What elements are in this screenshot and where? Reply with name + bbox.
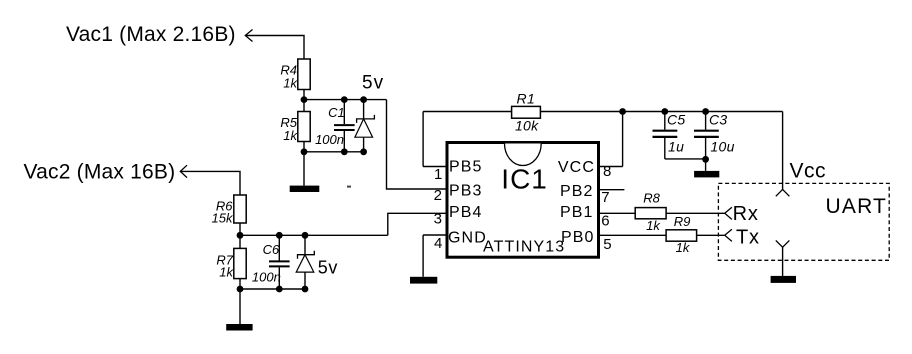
wire Vcc rail down	[782, 112, 784, 190]
wire node row C	[240, 234, 388, 236]
svg-text:1k: 1k	[283, 128, 298, 143]
wire R1 right to node E	[540, 111, 622, 113]
svg-text:100n: 100n	[252, 270, 281, 285]
wire node B to ground	[303, 152, 305, 186]
wire node row D	[240, 288, 305, 290]
wire top rail to Vcc corner	[623, 111, 783, 113]
svg-text:5v: 5v	[318, 258, 338, 278]
resistor R8	[635, 208, 666, 219]
op IC1 body	[447, 143, 599, 258]
arrow UART ground connector	[776, 240, 790, 247]
svg-text:5v: 5v	[362, 73, 384, 94]
svg-text:C6: C6	[263, 242, 280, 257]
wire node row A	[304, 99, 387, 101]
resistor R7	[234, 248, 246, 278]
svg-text:PB4: PB4	[449, 204, 483, 221]
wire node A to PB3 pin 2	[387, 100, 446, 189]
arrow Vac1	[245, 30, 252, 42]
svg-text:10k: 10k	[515, 117, 539, 133]
svg-text:15k: 15k	[212, 210, 234, 225]
ground (UART)	[771, 276, 796, 283]
svg-text:IC1: IC1	[501, 164, 548, 195]
wire node C to PB4 pin 3	[388, 213, 446, 235]
resistor R1	[512, 106, 541, 118]
svg-text:Vac2 (Max 16B): Vac2 (Max 16B)	[24, 161, 176, 184]
svg-text:PB0: PB0	[561, 229, 595, 246]
wire pin8 VCC	[600, 166, 623, 168]
stray mark	[347, 186, 351, 188]
svg-text:100n: 100n	[315, 132, 344, 147]
svg-text:R8: R8	[643, 190, 660, 205]
resistor R5	[298, 112, 310, 142]
svg-text:Vcc: Vcc	[790, 160, 827, 183]
wire Vac2 to R6	[180, 171, 240, 195]
svg-text:1k: 1k	[283, 76, 298, 91]
junction dots row C	[237, 232, 244, 239]
wire pin8 up to node E	[622, 112, 624, 167]
arrow Vac2	[180, 165, 187, 177]
svg-text:Rx: Rx	[733, 203, 759, 225]
svg-text:6: 6	[601, 213, 609, 230]
ground (below R5)	[290, 186, 320, 192]
svg-text:PB5: PB5	[449, 158, 483, 175]
svg-text:3: 3	[434, 211, 442, 228]
zener diode D2	[296, 235, 314, 289]
svg-text:1: 1	[434, 166, 442, 183]
wire to R1 left	[423, 111, 512, 113]
capacitor C6	[269, 235, 290, 289]
wire pin6 PB1 to R8	[600, 212, 635, 214]
wire pin4 down to ground	[422, 235, 424, 277]
svg-text:C3: C3	[709, 112, 728, 128]
wire R5 to node B	[303, 142, 305, 152]
svg-text:1k: 1k	[646, 218, 661, 233]
arrow Vcc connector	[776, 189, 790, 196]
svg-text:1k: 1k	[219, 265, 234, 280]
zener diode D1	[355, 100, 375, 152]
svg-text:GND: GND	[448, 229, 487, 246]
junction dots top rail	[619, 108, 626, 115]
svg-text:PB2: PB2	[560, 183, 594, 200]
ground (IC pin4)	[410, 277, 437, 284]
wire R8 to Rx	[666, 212, 725, 214]
junction dots row D	[237, 286, 244, 293]
junction dot C5/C3 bottom	[702, 156, 709, 163]
svg-text:UART: UART	[826, 195, 888, 218]
wire pin5 PB0 to R9	[600, 234, 666, 236]
ground (below C3)	[694, 171, 719, 178]
wire pin4 GND	[423, 234, 445, 236]
svg-text:2: 2	[434, 187, 442, 204]
wire node D to ground	[239, 289, 241, 324]
wire R9 to Tx	[697, 234, 725, 236]
svg-text:7: 7	[601, 189, 609, 206]
svg-text:5: 5	[603, 236, 611, 253]
svg-text:PB3: PB3	[449, 182, 483, 199]
wire node A to R5	[303, 100, 305, 112]
svg-text:PB1: PB1	[560, 204, 594, 221]
wire R4 bottom to node A	[303, 90, 305, 100]
wire pin1 up to R1	[422, 112, 424, 167]
wire R6 to node C	[239, 223, 241, 235]
IC1 notch	[505, 144, 542, 166]
ground (below R7)	[226, 324, 252, 331]
svg-text:Vac1 (Max 2.16B): Vac1 (Max 2.16B)	[66, 23, 236, 46]
capacitor C1	[334, 100, 355, 152]
wire R7 to node D	[239, 279, 241, 289]
capacitor C3	[694, 112, 719, 171]
wire pin7 PB2 stub	[600, 189, 624, 191]
wire Vac1 to R4	[245, 36, 304, 60]
junction dots row A	[301, 96, 308, 103]
svg-text:C5: C5	[667, 112, 686, 128]
svg-text:8: 8	[603, 163, 611, 180]
junction dots row B	[301, 148, 308, 155]
arrow Rx	[725, 207, 732, 219]
wire UART ground stem	[782, 247, 784, 276]
svg-text:R1: R1	[517, 91, 536, 107]
UART module box	[718, 183, 889, 260]
svg-text:1k: 1k	[676, 240, 691, 255]
svg-text:Tx: Tx	[736, 227, 760, 249]
capacitor C5	[653, 112, 706, 159]
wire node C to R7	[239, 235, 241, 248]
resistor R4	[298, 59, 310, 90]
svg-text:4: 4	[434, 235, 442, 252]
wire node row B	[304, 151, 364, 153]
wire pin1 PB5	[423, 166, 445, 168]
arrow Tx	[725, 229, 732, 241]
svg-text:1u: 1u	[668, 138, 684, 154]
svg-text:ATTINY13: ATTINY13	[483, 239, 565, 256]
svg-text:R9: R9	[674, 214, 691, 229]
svg-text:VCC: VCC	[558, 159, 595, 176]
svg-text:C1: C1	[328, 105, 345, 120]
resistor R9	[666, 230, 697, 241]
svg-text:10u: 10u	[710, 138, 734, 154]
resistor R6	[234, 195, 246, 223]
